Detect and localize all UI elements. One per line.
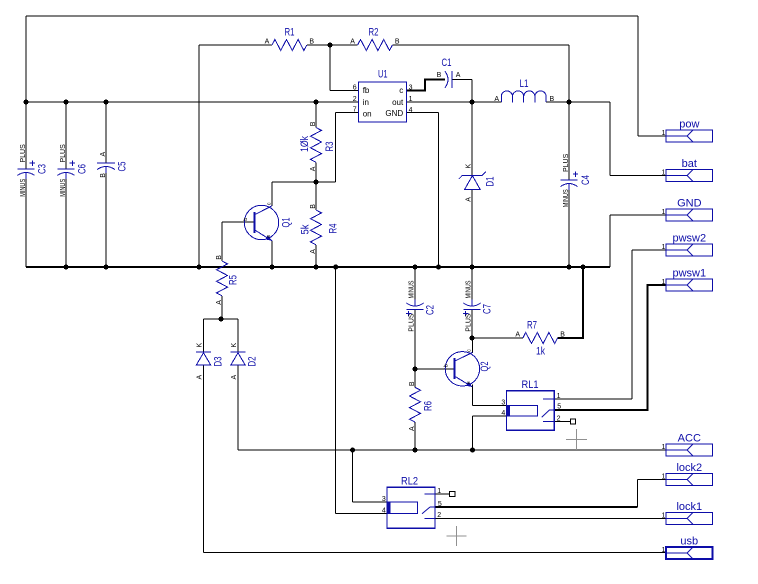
- svg-text:1: 1: [661, 209, 665, 216]
- svg-text:2: 2: [557, 415, 561, 422]
- wire GND feed: [610, 214, 666, 216]
- wire left rail upper: [25, 16, 27, 169]
- junction input row x=569: [567, 100, 572, 105]
- diode D2: [231, 352, 246, 365]
- svg-text:B: B: [550, 96, 555, 103]
- resistor R5: [217, 261, 228, 296]
- capacitor C6: [58, 161, 75, 179]
- wire U1 pin3 to C1 (thick): [407, 80, 446, 91]
- svg-text:C7: C7: [482, 304, 494, 314]
- wire Q1 collector: [271, 182, 273, 206]
- svg-text:4: 4: [382, 507, 386, 514]
- junction input row x=66: [64, 100, 69, 105]
- wire bat vertical: [609, 102, 611, 176]
- relay RL2 body: [387, 487, 435, 528]
- svg-text:A: A: [456, 72, 461, 79]
- svg-text:2: 2: [437, 512, 441, 519]
- wire R6 bottom: [414, 422, 416, 450]
- svg-text:ACC: ACC: [678, 433, 701, 445]
- wire R2 to right corner: [392, 44, 569, 46]
- svg-text:A: A: [310, 249, 317, 254]
- svg-text:3: 3: [501, 399, 505, 406]
- svg-text:7: 7: [353, 107, 357, 114]
- svg-text:B: B: [216, 255, 223, 260]
- svg-text:1: 1: [661, 444, 665, 451]
- svg-text:B: B: [395, 38, 400, 45]
- svg-text:fb: fb: [363, 86, 370, 95]
- wire top rail: [26, 15, 638, 17]
- connector port pwsw1: [666, 279, 713, 291]
- svg-text:1: 1: [661, 474, 665, 481]
- svg-text:B: B: [100, 173, 107, 178]
- origin cross mark 2: [447, 526, 467, 546]
- svg-text:A: A: [350, 38, 355, 45]
- svg-text:K: K: [465, 164, 472, 169]
- wire fb horizontal: [330, 90, 359, 92]
- junction ground bus x=569: [567, 265, 572, 270]
- svg-text:RL2: RL2: [401, 476, 418, 488]
- svg-text:C1: C1: [442, 57, 452, 69]
- svg-text:MINUS: MINUS: [563, 189, 570, 207]
- svg-text:1: 1: [661, 513, 665, 520]
- resistor R7: [523, 333, 558, 344]
- zener diode D1: [459, 172, 486, 190]
- wire diode bridge top: [204, 318, 239, 320]
- svg-text:e: e: [266, 235, 272, 238]
- svg-text:1: 1: [409, 96, 413, 103]
- wire lock2 vertical: [637, 480, 639, 508]
- svg-text:out: out: [392, 98, 404, 107]
- svg-text:pow: pow: [679, 119, 699, 131]
- svg-text:2: 2: [353, 96, 357, 103]
- wire bat feed: [610, 175, 666, 177]
- svg-text:B: B: [560, 331, 565, 338]
- junction input row x=472: [470, 100, 475, 105]
- wire input row y102: [26, 101, 359, 103]
- connector port pwsw2: [666, 244, 713, 256]
- svg-text:bat: bat: [682, 158, 697, 170]
- junction ground bus x=335.7: [333, 265, 338, 270]
- wire Q2 collector: [471, 338, 473, 353]
- svg-text:e: e: [466, 381, 472, 384]
- junction R1-R2 node: [328, 43, 333, 48]
- svg-text:C2: C2: [425, 305, 437, 315]
- op-amp U1 body: [359, 82, 407, 122]
- resistor R3: [311, 128, 322, 163]
- wire R1 feed vertical: [198, 45, 200, 267]
- svg-text:C4: C4: [580, 175, 592, 185]
- wire D3 top: [203, 319, 205, 352]
- svg-text:PLUS: PLUS: [20, 144, 27, 163]
- svg-text:GND: GND: [677, 198, 702, 210]
- junction ground bus x=66: [64, 265, 69, 270]
- wire base down to R5: [221, 222, 223, 261]
- svg-text:1: 1: [661, 130, 665, 137]
- wire Q2 emitter: [471, 384, 473, 405]
- svg-text:R4: R4: [328, 224, 340, 234]
- wire C5 branch lower: [105, 173, 107, 267]
- svg-text:MINUS: MINUS: [20, 179, 27, 197]
- svg-text:5: 5: [557, 404, 561, 411]
- capacitor C1: [445, 71, 452, 88]
- svg-text:PLUS: PLUS: [563, 153, 570, 172]
- wire Q1 emitter: [271, 241, 273, 267]
- resistor R2: [358, 40, 393, 51]
- svg-text:c: c: [467, 349, 473, 352]
- svg-text:MINUS: MINUS: [466, 280, 473, 298]
- svg-text:R2: R2: [369, 27, 379, 39]
- wire pwsw2 vertical: [631, 250, 633, 399]
- svg-text:1: 1: [661, 244, 665, 251]
- svg-text:C3: C3: [37, 164, 49, 174]
- wire R4 top: [315, 182, 317, 210]
- wire R7 B thick: [558, 267, 583, 338]
- svg-text:PLUS: PLUS: [409, 313, 416, 332]
- wire R6 top: [414, 369, 416, 387]
- junction ground bus x=106: [104, 265, 109, 270]
- junction Q2 base node: [413, 367, 418, 372]
- svg-text:1: 1: [661, 547, 665, 554]
- junction ground bus x=199: [197, 265, 202, 270]
- svg-text:1k: 1k: [536, 346, 545, 358]
- junction ACC row x=472.5: [470, 448, 475, 453]
- wire D2 top: [237, 319, 239, 352]
- svg-text:R7: R7: [527, 320, 537, 332]
- wire GND vertical: [609, 215, 611, 267]
- svg-text:A: A: [409, 426, 416, 431]
- svg-text:B: B: [310, 204, 317, 209]
- svg-text:MINUS: MINUS: [60, 179, 67, 197]
- capacitor C4: [561, 172, 579, 190]
- svg-text:R5: R5: [228, 275, 240, 285]
- wire right corner down: [568, 45, 570, 102]
- connector port lock2: [666, 474, 713, 486]
- wire C4 branch lower: [568, 190, 570, 267]
- wire U1 GND down: [438, 113, 440, 268]
- svg-text:A: A: [515, 331, 520, 338]
- wire node182 to Q1: [272, 181, 316, 183]
- wire D3 bottom: [203, 365, 205, 552]
- svg-text:PLUS: PLUS: [466, 313, 473, 332]
- svg-text:1: 1: [661, 170, 665, 177]
- wire R3 top: [315, 102, 317, 128]
- junction R3 bottom node: [314, 180, 319, 185]
- svg-text:5k: 5k: [300, 224, 312, 234]
- junction ground bus x=472: [470, 265, 475, 270]
- svg-text:3: 3: [409, 85, 413, 92]
- svg-text:c: c: [266, 202, 272, 205]
- wire on pin down: [335, 113, 337, 183]
- svg-text:5: 5: [438, 501, 442, 508]
- svg-text:B: B: [309, 38, 314, 45]
- wire RL2 pin3 vertical: [352, 450, 354, 502]
- svg-text:R3: R3: [324, 142, 336, 152]
- wire RL1 pin4 down: [472, 416, 474, 450]
- wire usb row: [204, 552, 667, 554]
- svg-text:1: 1: [557, 393, 561, 400]
- wire D1 top: [471, 102, 473, 175]
- connector port GND: [666, 209, 713, 221]
- svg-text:A: A: [310, 166, 317, 171]
- svg-text:GND: GND: [385, 109, 403, 118]
- svg-text:b: b: [243, 218, 249, 221]
- svg-text:on: on: [363, 110, 372, 119]
- wire Q1 base: [222, 221, 254, 223]
- wire C4 branch upper: [568, 102, 570, 180]
- junction ground bus x=415: [413, 265, 418, 270]
- open terminal at RL1 pin 2: [570, 419, 575, 424]
- svg-text:in: in: [363, 98, 369, 107]
- wire RL2 pin2 to lock1: [435, 517, 666, 519]
- open terminal at RL2 pin 1: [450, 491, 455, 496]
- wire RL2 pin1 stub: [435, 493, 450, 495]
- svg-text:L1: L1: [520, 78, 529, 90]
- junction ground bus x=438.5: [436, 265, 441, 270]
- wire on pin: [336, 112, 359, 114]
- wire on to R3 node: [316, 181, 336, 183]
- junction ground bus x=316: [314, 265, 319, 270]
- wire fb vertical: [329, 45, 331, 91]
- svg-text:A: A: [265, 38, 270, 45]
- wire RL1 pin2 stub: [554, 421, 570, 423]
- connector port bat: [666, 170, 713, 182]
- wire R3 bottom: [315, 162, 317, 182]
- svg-text:A: A: [100, 152, 107, 157]
- svg-text:U1: U1: [378, 69, 388, 81]
- junction R7 node: [470, 336, 475, 341]
- svg-text:B: B: [437, 72, 442, 79]
- wire L1 B to bat corner: [546, 101, 610, 103]
- wire R1-R2 link: [307, 44, 358, 46]
- capacitor C5: [97, 163, 115, 173]
- svg-text:B: B: [310, 121, 317, 126]
- svg-text:D2: D2: [247, 357, 259, 367]
- svg-text:K: K: [231, 343, 238, 348]
- diode D3: [196, 352, 211, 365]
- resistor R1: [272, 40, 307, 51]
- capacitor C3: [18, 161, 35, 179]
- wire C6 branch upper: [65, 102, 67, 169]
- svg-text:C5: C5: [117, 162, 129, 172]
- wire node to L1 A: [472, 101, 501, 103]
- inductor L1: [501, 91, 546, 103]
- wire node to R7: [472, 337, 523, 339]
- wire RL1 pin5 to pwsw1 (thick): [554, 285, 666, 410]
- svg-text:Q2: Q2: [479, 362, 491, 372]
- svg-text:A: A: [196, 375, 203, 380]
- svg-text:lock1: lock1: [676, 501, 702, 513]
- wire left rail lower: [25, 179, 27, 267]
- origin cross mark 1: [566, 429, 587, 450]
- svg-text:K: K: [196, 343, 203, 348]
- svg-text:4: 4: [409, 107, 413, 114]
- wire D2 bottom: [237, 365, 239, 450]
- wire C1 to node: [452, 79, 472, 81]
- svg-text:4: 4: [501, 410, 505, 417]
- svg-text:1: 1: [661, 279, 665, 286]
- svg-text:pwsw2: pwsw2: [672, 233, 706, 245]
- wire RL2 pin4 vertical: [335, 267, 337, 514]
- resistor R4: [311, 210, 322, 245]
- svg-text:MINUS: MINUS: [409, 280, 416, 298]
- svg-text:1: 1: [437, 488, 441, 495]
- junction diode bridge node: [219, 317, 224, 322]
- wire C6 branch lower: [65, 179, 67, 267]
- wire RL2 pin5 thick: [435, 506, 638, 508]
- svg-text:1Øk: 1Øk: [299, 136, 311, 152]
- svg-text:Q1: Q1: [281, 218, 293, 228]
- wire Q2 emitter to RL1 pin3: [472, 405, 506, 407]
- svg-text:A: A: [465, 197, 472, 202]
- svg-text:c: c: [399, 86, 403, 95]
- svg-text:b: b: [443, 364, 449, 367]
- svg-text:A: A: [494, 96, 499, 103]
- wire RL2 pin4 horizontal: [336, 513, 387, 515]
- svg-text:A: A: [216, 300, 223, 305]
- svg-text:usb: usb: [680, 536, 698, 548]
- wire R4 bottom: [315, 245, 317, 267]
- wire lock2 feed: [638, 479, 666, 481]
- svg-text:B: B: [409, 381, 416, 386]
- svg-text:D1: D1: [485, 177, 497, 187]
- resistor R6: [410, 387, 421, 422]
- wire RL2 pin3 horizontal: [353, 501, 387, 503]
- transistor Q2: [445, 352, 479, 387]
- junction ACC row x=415: [413, 448, 418, 453]
- wire C2 branch upper: [414, 267, 416, 300]
- svg-text:3: 3: [382, 496, 386, 503]
- svg-text:R1: R1: [285, 27, 295, 39]
- capacitor C7: [463, 300, 480, 316]
- junction ground bus x=272: [270, 265, 275, 270]
- junction input row x=316: [314, 100, 319, 105]
- svg-text:A: A: [231, 375, 238, 380]
- svg-text:pwsw1: pwsw1: [672, 268, 706, 280]
- relay RL1 body: [507, 391, 555, 431]
- connector port lock1: [666, 512, 713, 524]
- wire C7 branch lower: [471, 310, 473, 339]
- wire D1 bottom: [471, 190, 473, 267]
- wire C7 branch upper: [471, 267, 473, 300]
- svg-text:C6: C6: [77, 164, 89, 174]
- wire pow feed: [638, 135, 666, 137]
- junction ground bus x=583: [581, 265, 586, 270]
- wire main ground bus (thick): [26, 266, 610, 268]
- wire C5 branch upper: [105, 102, 107, 163]
- wire R5 bottom: [221, 296, 223, 319]
- wire RL1 pin4 horizontal: [473, 415, 507, 417]
- transistor Q1: [244, 205, 278, 241]
- wire C2 branch lower: [414, 310, 416, 370]
- junction input row x=106: [104, 100, 109, 105]
- connector port pow: [666, 130, 713, 142]
- svg-text:6: 6: [353, 85, 357, 92]
- svg-text:lock2: lock2: [676, 462, 702, 474]
- svg-text:R6: R6: [423, 401, 435, 411]
- capacitor C2: [406, 300, 423, 316]
- connector port usb: [666, 547, 713, 559]
- wire pow vertical: [637, 16, 639, 136]
- connector port ACC: [666, 444, 713, 456]
- svg-text:D3: D3: [213, 357, 225, 367]
- svg-text:RL1: RL1: [522, 379, 539, 391]
- wire RL1 pin1 to corner: [554, 398, 632, 400]
- wire C1 node down: [471, 80, 473, 103]
- svg-text:PLUS: PLUS: [60, 144, 67, 163]
- wire R1 feed left: [199, 44, 272, 46]
- junction input row x=26: [24, 100, 29, 105]
- wire out row: [407, 101, 473, 103]
- wire ACC row: [238, 449, 666, 451]
- wire Q2 base: [415, 368, 454, 370]
- junction ACC row x=352.6: [350, 448, 355, 453]
- wire pwsw2 feed: [632, 249, 666, 251]
- wire U1 GND pin: [407, 112, 439, 114]
